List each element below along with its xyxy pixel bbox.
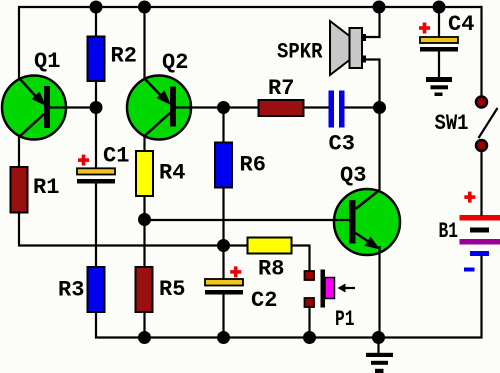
resistor R1 [11, 167, 28, 213]
junction Q2 base node [217, 101, 230, 114]
svg-text:R4: R4 [159, 161, 185, 186]
junction top rail at C4 [433, 1, 446, 14]
junction C2 R8 node [217, 239, 230, 252]
wire node to R8 left [224, 244, 249, 246]
svg-text:SPKR: SPKR [277, 40, 323, 65]
transistor Q2 [127, 76, 191, 140]
minus mark B1 [464, 268, 475, 272]
resistor R6 [215, 143, 232, 188]
wire Q2 base lead [176, 106, 224, 108]
junction top rail at Q2 [138, 1, 151, 14]
wire top positive rail [19, 7, 482, 96]
junction top rail at R2 [90, 1, 103, 14]
switch SW1 [476, 97, 498, 152]
wire R2 bottom to node [95, 80, 97, 108]
plus mark C2 [230, 266, 241, 277]
wire speaker top terminal [364, 7, 380, 37]
wire R6 top lead [222, 108, 224, 144]
capacitor C3 [329, 91, 345, 128]
transistor Q3 [334, 189, 400, 255]
wire C1 bottom to R3 top [95, 183, 97, 268]
svg-text:Q2: Q2 [162, 50, 188, 75]
wire node to Q3 collector [378, 108, 380, 192]
ground (bottom rail) [366, 353, 393, 373]
wire bottom ground rail [96, 256, 482, 338]
wire R1 bottom to node row y=245 [19, 212, 224, 246]
svg-text:C1: C1 [103, 144, 129, 169]
svg-text:C3: C3 [329, 132, 355, 157]
wire Q3 base line [145, 219, 350, 221]
junction rail at ground [372, 331, 385, 344]
wire P1 bottom to rail [308, 307, 310, 338]
junction R4 R5 node [138, 213, 151, 226]
wire ground stub [377, 338, 379, 355]
svg-text:SW1: SW1 [435, 111, 469, 136]
junction rail at R5 [138, 331, 151, 344]
svg-text:R6: R6 [240, 153, 266, 178]
svg-text:R8: R8 [258, 257, 284, 282]
wire Q1 base lead [50, 106, 96, 108]
wire C2 bottom to rail [222, 294, 224, 338]
wire C3 to node [344, 106, 380, 108]
svg-text:R2: R2 [111, 44, 137, 69]
wire Q2 collector to R4 [143, 135, 145, 152]
wire C4 top lead [438, 7, 440, 38]
svg-text:B1: B1 [439, 219, 459, 244]
wire speaker bottom terminal [364, 60, 380, 108]
wire R6 bottom to C2 node [222, 187, 224, 280]
svg-text:Q3: Q3 [340, 163, 366, 188]
junction Q1 base node [90, 101, 103, 114]
wire R7 right to C3 [303, 106, 329, 108]
wire Q1 emitter to R1 [18, 136, 20, 168]
wire Q2 emitter top lead [143, 7, 145, 79]
capacitor C2 [205, 279, 243, 295]
battery B1 [460, 215, 500, 256]
junction C3 output node [373, 101, 386, 114]
svg-text:C4: C4 [448, 12, 474, 37]
junction rail at C2 [217, 331, 230, 344]
wire C4 bottom to ground [438, 51, 440, 78]
wire R5 bottom to rail [143, 311, 145, 338]
wire R2 top lead [95, 7, 97, 37]
wire node to C1 top [95, 107, 97, 169]
potentiometer P1 [305, 270, 356, 308]
resistor R2 [88, 37, 105, 82]
wire SW1 bottom to battery [480, 151, 482, 216]
plus mark C4 [419, 23, 430, 34]
resistor R3 [88, 267, 105, 312]
resistor R8 [248, 238, 292, 254]
ground (under C4) [426, 77, 452, 96]
junction top rail at speaker [373, 1, 386, 14]
svg-text:R3: R3 [58, 278, 84, 303]
wire Q3 emitter to rail [378, 246, 380, 338]
transistor Q1 [2, 76, 66, 140]
capacitor C1 [77, 168, 115, 183]
resistor R7 [259, 100, 304, 116]
svg-text:R7: R7 [268, 76, 294, 101]
wire node to R7 left [224, 106, 260, 108]
resistor R4 [136, 151, 153, 196]
svg-text:P1: P1 [335, 307, 355, 332]
svg-text:Q1: Q1 [34, 49, 60, 74]
plus mark B1 [464, 192, 475, 203]
junction rail at P1 [303, 331, 316, 344]
speaker SPKR [330, 21, 366, 75]
capacitor C4 [420, 37, 458, 52]
plus mark C1 [78, 155, 89, 166]
svg-text:R5: R5 [159, 277, 185, 302]
svg-text:C2: C2 [251, 288, 277, 313]
wire R4 bottom to R5 top [143, 195, 145, 268]
resistor R5 [136, 267, 153, 312]
wire R8 right to P1 top [291, 246, 310, 273]
svg-text:R1: R1 [33, 175, 59, 200]
